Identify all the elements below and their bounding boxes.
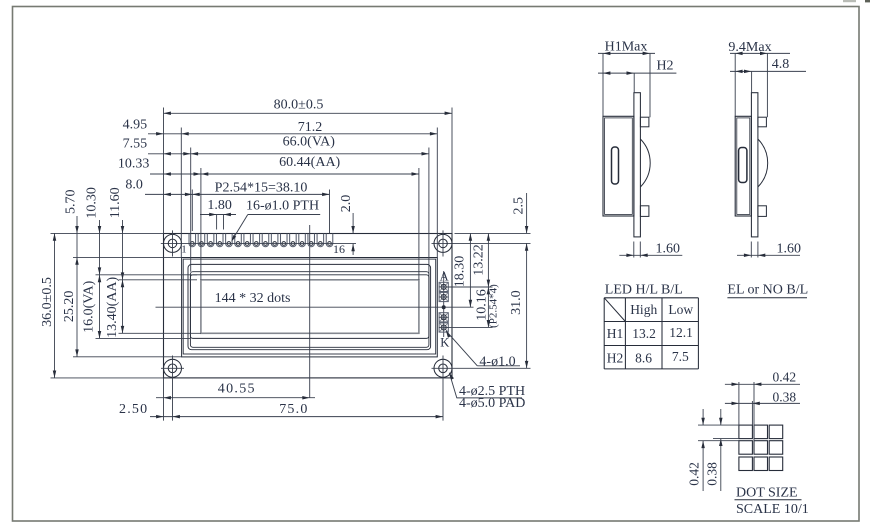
svg-text:5.70: 5.70 bbox=[64, 190, 79, 215]
svg-text:H2: H2 bbox=[656, 58, 673, 73]
svg-text:144 * 32 dots: 144 * 32 dots bbox=[215, 291, 291, 306]
svg-text:A: A bbox=[440, 269, 449, 283]
svg-text:H1Max: H1Max bbox=[605, 40, 648, 55]
svg-text:10.30: 10.30 bbox=[84, 187, 99, 219]
svg-text:25.20: 25.20 bbox=[62, 291, 77, 323]
svg-text:2.5: 2.5 bbox=[511, 197, 526, 215]
svg-text:4.8: 4.8 bbox=[772, 57, 790, 72]
svg-text:8.6: 8.6 bbox=[635, 350, 652, 365]
svg-text:Low: Low bbox=[668, 302, 693, 317]
svg-text:16: 16 bbox=[333, 242, 345, 256]
svg-text:60.44(AA): 60.44(AA) bbox=[279, 155, 340, 170]
svg-text:12.1: 12.1 bbox=[669, 325, 693, 340]
svg-text:H1: H1 bbox=[607, 326, 624, 341]
svg-text:13.22: 13.22 bbox=[471, 244, 486, 276]
svg-text:0.38: 0.38 bbox=[704, 462, 719, 486]
svg-text:1: 1 bbox=[181, 244, 187, 256]
svg-text:SCALE 10/1: SCALE 10/1 bbox=[736, 502, 809, 517]
svg-text:0.42: 0.42 bbox=[687, 462, 702, 486]
svg-text:EL or NO B/L: EL or NO B/L bbox=[727, 283, 808, 298]
svg-text:75.0: 75.0 bbox=[279, 402, 308, 417]
svg-text:9.4Max: 9.4Max bbox=[728, 40, 771, 55]
svg-text:2.50: 2.50 bbox=[119, 402, 148, 417]
svg-text:13.2: 13.2 bbox=[632, 326, 656, 341]
svg-text:2.0: 2.0 bbox=[339, 195, 354, 213]
svg-text:P2.54*15=38.10: P2.54*15=38.10 bbox=[215, 180, 308, 195]
svg-text:4-ø1.0: 4-ø1.0 bbox=[479, 354, 515, 369]
svg-text:7.55: 7.55 bbox=[123, 137, 148, 152]
svg-text:31.0: 31.0 bbox=[509, 290, 524, 315]
svg-text:66.0(VA): 66.0(VA) bbox=[283, 134, 336, 149]
svg-text:36.0±0.5: 36.0±0.5 bbox=[40, 277, 55, 327]
svg-text:13.40(AA): 13.40(AA) bbox=[105, 277, 120, 338]
svg-text:1.60: 1.60 bbox=[656, 242, 681, 257]
svg-text:11.60: 11.60 bbox=[108, 187, 123, 218]
svg-text:H2: H2 bbox=[607, 350, 624, 365]
svg-text:(P2.54*4): (P2.54*4) bbox=[487, 284, 499, 328]
svg-text:18.30: 18.30 bbox=[452, 256, 467, 288]
svg-text:71.2: 71.2 bbox=[298, 120, 323, 135]
svg-text:8.0: 8.0 bbox=[125, 178, 143, 193]
svg-text:1.60: 1.60 bbox=[776, 242, 801, 257]
svg-text:High: High bbox=[630, 302, 657, 317]
svg-text:4.95: 4.95 bbox=[123, 117, 148, 132]
svg-text:0.38: 0.38 bbox=[772, 389, 796, 404]
svg-text:K: K bbox=[440, 336, 449, 350]
svg-text:80.0±0.5: 80.0±0.5 bbox=[274, 98, 324, 113]
svg-text:1.80: 1.80 bbox=[207, 198, 232, 213]
svg-text:DOT SIZE: DOT SIZE bbox=[736, 485, 798, 500]
svg-text:10.33: 10.33 bbox=[118, 157, 150, 172]
svg-text:LED H/L B/L: LED H/L B/L bbox=[605, 282, 683, 297]
svg-text:0.42: 0.42 bbox=[772, 370, 796, 385]
svg-text:16.0(VA): 16.0(VA) bbox=[81, 280, 96, 333]
svg-text:40.55: 40.55 bbox=[218, 382, 256, 397]
svg-text:7.5: 7.5 bbox=[672, 349, 689, 364]
svg-text:16-ø1.0 PTH: 16-ø1.0 PTH bbox=[246, 199, 319, 214]
